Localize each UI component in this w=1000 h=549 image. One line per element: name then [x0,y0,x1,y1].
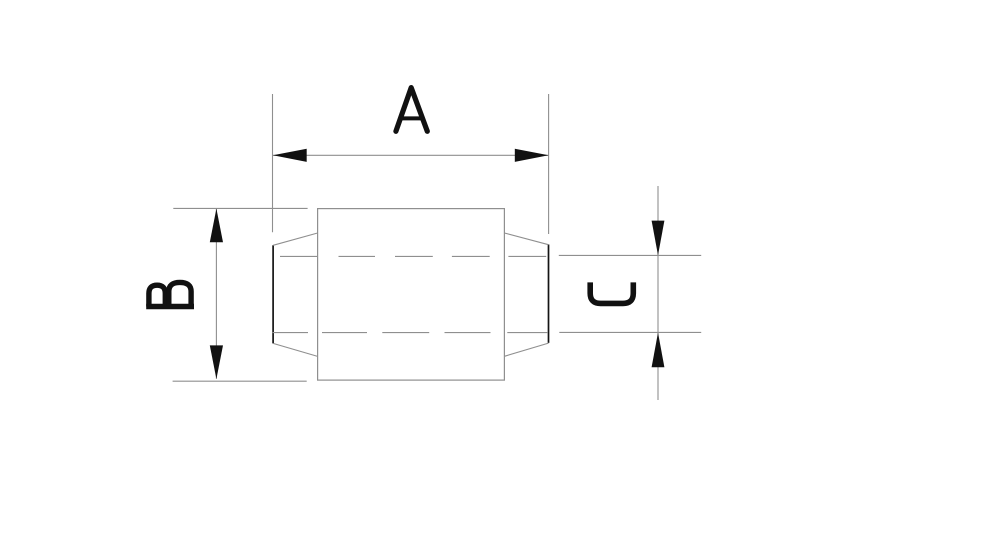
part body: right end face (thick edge) [548,245,550,343]
dimension A: left arrowhead [273,149,307,162]
hidden bore line, upper (dashed) [280,255,546,257]
dimension A: right arrowhead [515,149,549,162]
label C (rotated 90 deg CCW) [590,282,633,303]
part body: top-right chamfer line [504,233,548,245]
part body: top-left chamfer line [273,233,318,245]
part body: left end face (thick edge) [272,245,274,343]
dimension B: bottom arrowhead [210,345,223,379]
dimension B: dimension line [215,209,217,379]
dimension A: dimension line [273,154,549,156]
dimension B: top extension line [173,207,307,209]
dimension C: upper arrowhead (points down) [652,221,665,256]
dimension C: bottom extension line [559,331,701,333]
part body: outer sleeve rectangle [318,209,505,381]
dimension B: top arrowhead [210,209,223,243]
part body: bottom-right chamfer line [504,343,548,356]
dimension A: left extension line [272,94,274,232]
hidden bore line, lower (dashed) [273,332,548,334]
part body: bottom-left chamfer line [273,343,318,356]
label B (rotated 90 deg CCW) [146,282,194,306]
dimension A: right extension line [548,94,550,234]
dimension C: lower arrowhead (points up) [652,333,665,368]
dimension C: top extension line [559,254,701,256]
label A [396,88,427,132]
dimension B: bottom extension line [173,380,307,382]
dimension C: dimension line [657,186,659,400]
